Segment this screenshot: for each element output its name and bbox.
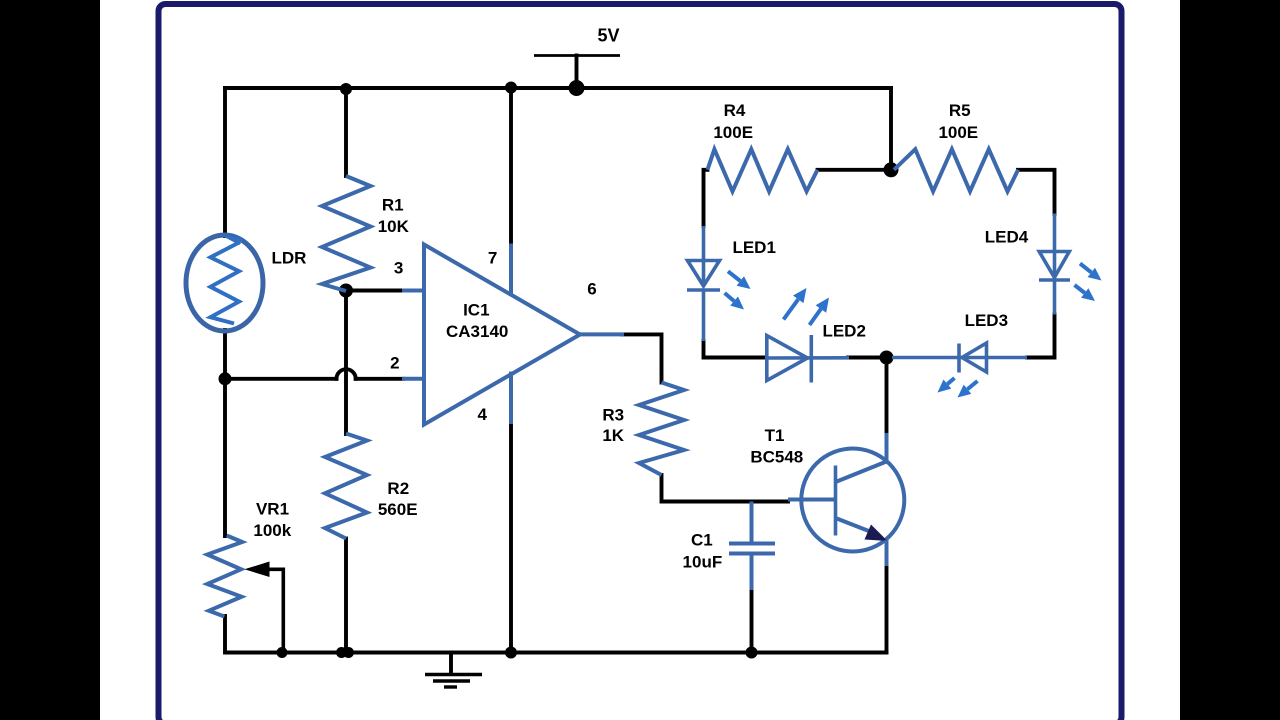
wire: pin4 to ground rail — [509, 423, 513, 653]
wire: left rail top (5V to LDR) — [223, 88, 227, 236]
wire: inverting input run — [225, 377, 337, 381]
LED1 emission arrows — [725, 271, 751, 309]
node: R1 bottom / pin3 — [339, 284, 353, 298]
wire: R1 top lead — [344, 89, 348, 176]
svg-text:10uF: 10uF — [683, 553, 723, 572]
LED4 emission arrows — [1075, 264, 1102, 302]
svg-text:IC1: IC1 — [463, 301, 489, 320]
node: C1 on ground rail — [746, 647, 758, 659]
svg-text:10K: 10K — [378, 217, 410, 236]
wire: T1 emitter to ground rail — [885, 565, 889, 653]
wire: left rail LDR to VR1 — [223, 330, 227, 536]
wire: R5 right lead corner down — [1018, 170, 1055, 214]
svg-text:CA3140: CA3140 — [446, 322, 508, 341]
svg-text:2: 2 — [390, 354, 399, 373]
svg-text:R2: R2 — [387, 479, 409, 498]
wire: VR1 bottom to ground rail — [225, 616, 887, 653]
wire: R1/R2 vertical link — [344, 291, 348, 435]
wire: R2 bottom lead — [344, 539, 348, 653]
svg-text:BC548: BC548 — [750, 448, 803, 467]
LED1 — [687, 226, 720, 341]
wire: top supply rail — [225, 86, 891, 90]
LED2 — [767, 335, 849, 383]
wire: hop to pin2 — [356, 377, 403, 381]
svg-text:R1: R1 — [382, 196, 404, 215]
wire: LED3 to right corner — [1027, 315, 1055, 358]
wire: op-amp output to R3 — [622, 334, 662, 382]
svg-text:3: 3 — [394, 259, 403, 278]
svg-text:4: 4 — [477, 405, 487, 424]
LED4 — [1039, 214, 1070, 315]
wire hop over R1-R2 link — [336, 369, 355, 379]
svg-text:VR1: VR1 — [256, 499, 289, 518]
svg-text:T1: T1 — [765, 426, 785, 445]
svg-text:LED1: LED1 — [732, 238, 775, 257]
svg-text:5V: 5V — [597, 26, 619, 46]
LED3 — [892, 343, 1027, 373]
svg-text:LED2: LED2 — [822, 322, 865, 341]
svg-text:1K: 1K — [602, 426, 624, 445]
node: LDR / inverting input — [219, 372, 232, 385]
svg-text:100k: 100k — [253, 521, 291, 540]
svg-text:100E: 100E — [938, 123, 978, 142]
resistor R2 — [325, 434, 367, 539]
node: R2 bottom on ground rail — [336, 647, 347, 658]
node: pin4 on ground rail — [505, 647, 517, 659]
svg-text:100E: 100E — [713, 123, 753, 142]
ground — [425, 675, 482, 688]
node: R4/R5 junction — [884, 162, 899, 177]
wire: C1 bottom lead — [750, 590, 754, 653]
svg-text:LDR: LDR — [272, 249, 307, 268]
svg-text:560E: 560E — [378, 500, 418, 519]
node: 5V junction (large dot) — [569, 80, 585, 96]
wire: pin7 from 5V rail — [509, 88, 513, 244]
svg-text:R4: R4 — [724, 101, 746, 120]
svg-text:R5: R5 — [949, 101, 971, 120]
svg-text:R3: R3 — [602, 405, 624, 424]
wire: pin3 node to op-amp — [346, 289, 403, 293]
resistor R1 — [322, 176, 371, 291]
5V supply bar — [534, 54, 620, 57]
node: VR1 wiper to ground rail — [277, 647, 288, 658]
capacitor C1 — [729, 502, 775, 591]
resistor R4 — [708, 149, 818, 191]
svg-text:7: 7 — [488, 248, 497, 267]
wire: T1 collector to LED node — [885, 358, 889, 435]
wire: 5V stub — [575, 56, 579, 89]
transistor T1 BC548 — [788, 433, 904, 566]
wire: LED2 to collector node — [848, 356, 881, 360]
svg-text:LED4: LED4 — [985, 227, 1029, 246]
wire: LED1 bottom corner to LED2 — [704, 341, 767, 358]
LDR — [186, 235, 263, 331]
LED3 emission arrows — [938, 378, 978, 398]
node: R1 top — [340, 83, 352, 95]
svg-text:C1: C1 — [691, 531, 713, 550]
ground stub — [449, 653, 453, 674]
svg-text:6: 6 — [587, 280, 596, 299]
wire: top rail corner down to R4/R5 node — [889, 88, 893, 170]
node: pin7 rail tap — [505, 82, 517, 94]
resistor R3 — [639, 383, 684, 476]
wire: R3 bottom to T1 base run — [662, 475, 789, 502]
resistor R5 — [894, 149, 1018, 191]
op-amp U1 CA3140 — [402, 244, 624, 425]
LED2 emission arrows — [784, 288, 830, 325]
wire: R4 right lead — [818, 168, 885, 172]
potentiometer VR1 — [207, 536, 283, 653]
svg-text:LED3: LED3 — [965, 311, 1008, 330]
wire: R4 left corner down to LED1 — [704, 170, 708, 226]
node: LED2/LED3/collector junction — [880, 351, 894, 365]
